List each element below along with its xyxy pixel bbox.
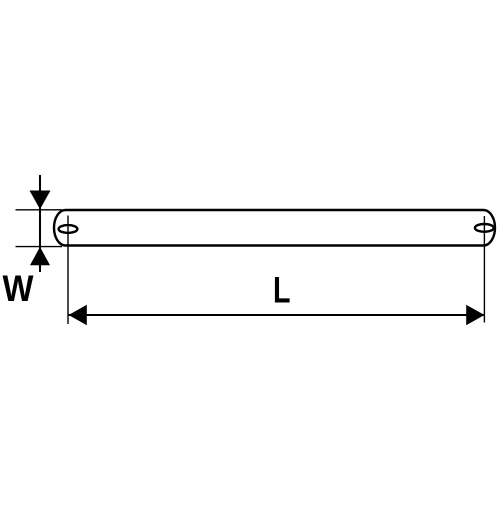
L left extension line (through left hole) <box>67 216 69 325</box>
svg-text:W: W <box>3 268 34 309</box>
W upper arrowhead (points down) <box>30 191 51 210</box>
left oval hole <box>59 225 78 233</box>
W bottom extension line <box>16 246 63 248</box>
L dimension line (horizontal) <box>69 314 485 316</box>
L left arrowhead (points left) <box>69 305 87 326</box>
L right extension line (through right hole) <box>483 216 485 323</box>
right oval hole <box>475 224 494 232</box>
svg-text:L: L <box>273 269 291 311</box>
W top extension line <box>16 209 63 211</box>
flat bar body (rounded-end strap) <box>54 210 495 246</box>
W dimension line (vertical) <box>39 175 41 272</box>
L right arrowhead (points right) <box>466 305 484 326</box>
W lower arrowhead (points up) <box>30 247 50 265</box>
